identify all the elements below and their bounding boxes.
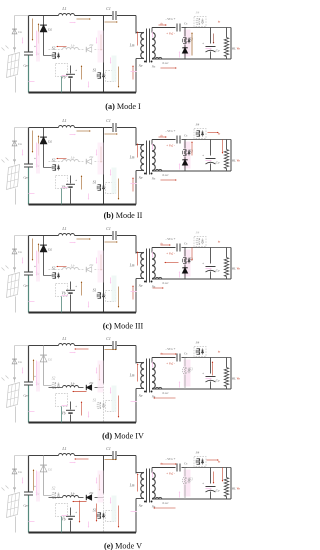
svg-text:+ Vs2 -: + Vs2 - bbox=[166, 252, 175, 256]
svg-text:RL: RL bbox=[231, 47, 236, 51]
svg-text:RL: RL bbox=[231, 267, 236, 271]
svg-text:Lm: Lm bbox=[129, 264, 135, 268]
svg-text:Vb: Vb bbox=[62, 292, 66, 296]
svg-text:Lb: Lb bbox=[70, 44, 75, 48]
svg-text:D1: D1 bbox=[88, 155, 94, 159]
svg-text:S1: S1 bbox=[93, 509, 97, 513]
svg-text:S4: S4 bbox=[196, 123, 200, 127]
svg-text:+: + bbox=[202, 262, 204, 266]
svg-text:Vo: Vo bbox=[237, 487, 241, 491]
svg-text:Cpv: Cpv bbox=[23, 176, 29, 180]
svg-text:S2: S2 bbox=[52, 377, 56, 381]
svg-text:+: + bbox=[75, 69, 77, 73]
svg-text:(c) Mode III: (c) Mode III bbox=[103, 322, 144, 331]
svg-text:iLsec: iLsec bbox=[162, 281, 169, 285]
svg-text:Np: Np bbox=[138, 64, 143, 68]
svg-text:S4: S4 bbox=[196, 11, 200, 15]
svg-text:RL: RL bbox=[231, 487, 236, 491]
svg-text:S3: S3 bbox=[189, 478, 193, 482]
svg-text:Lm: Lm bbox=[129, 374, 135, 378]
svg-text:S1: S1 bbox=[93, 69, 97, 73]
svg-text:Vb: Vb bbox=[62, 76, 66, 80]
svg-text:Co: Co bbox=[216, 269, 220, 273]
svg-text:+ Vs2 -: + Vs2 - bbox=[166, 362, 175, 366]
svg-text:- VCs +: - VCs + bbox=[165, 457, 175, 461]
svg-text:D2: D2 bbox=[47, 358, 53, 362]
svg-text:Np: Np bbox=[138, 284, 143, 288]
svg-text:- VCs +: - VCs + bbox=[165, 17, 175, 21]
svg-text:L1: L1 bbox=[61, 118, 66, 123]
svg-text:+: + bbox=[75, 511, 77, 515]
svg-text:RL: RL bbox=[231, 159, 236, 163]
svg-text:Vo: Vo bbox=[237, 377, 241, 381]
svg-text:Np: Np bbox=[138, 176, 143, 180]
svg-text:Np: Np bbox=[138, 504, 143, 508]
svg-text:+ Vs2 -: + Vs2 - bbox=[166, 144, 175, 148]
svg-text:Lb: Lb bbox=[70, 156, 75, 160]
svg-text:Da: Da bbox=[17, 142, 22, 146]
svg-text:Co: Co bbox=[216, 489, 220, 493]
svg-text:Cpv: Cpv bbox=[23, 394, 29, 398]
svg-text:+ Vs2 -: + Vs2 - bbox=[166, 32, 175, 36]
svg-text:(b) Mode II: (b) Mode II bbox=[104, 211, 143, 220]
svg-text:S3: S3 bbox=[189, 150, 193, 154]
svg-text:Cpv: Cpv bbox=[23, 64, 29, 68]
svg-text:L1: L1 bbox=[61, 446, 66, 451]
svg-text:D2: D2 bbox=[47, 468, 53, 472]
svg-text:+: + bbox=[202, 372, 204, 376]
svg-text:Lb: Lb bbox=[70, 264, 75, 268]
svg-text:- VCs +: - VCs + bbox=[165, 129, 175, 133]
svg-text:S4: S4 bbox=[196, 451, 200, 455]
svg-text:Co: Co bbox=[216, 379, 220, 383]
svg-text:iLsec: iLsec bbox=[162, 173, 169, 177]
svg-text:C1: C1 bbox=[106, 447, 111, 451]
svg-text:- VCs +: - VCs + bbox=[165, 237, 175, 241]
svg-text:iLsec: iLsec bbox=[162, 61, 169, 65]
svg-text:S3: S3 bbox=[189, 368, 193, 372]
svg-text:Lm: Lm bbox=[129, 44, 135, 48]
svg-text:S2: S2 bbox=[52, 47, 56, 51]
svg-text:+: + bbox=[202, 154, 204, 158]
svg-text:D1: D1 bbox=[88, 491, 94, 495]
svg-text:Lb: Lb bbox=[70, 492, 75, 496]
svg-text:D1: D1 bbox=[88, 43, 94, 47]
svg-text:D2: D2 bbox=[47, 28, 53, 32]
svg-text:- VCs +: - VCs + bbox=[165, 347, 175, 351]
svg-text:+: + bbox=[75, 285, 77, 289]
svg-text:(a) Mode I: (a) Mode I bbox=[105, 102, 141, 111]
svg-text:+: + bbox=[34, 157, 36, 161]
svg-text:S1: S1 bbox=[93, 399, 97, 403]
svg-text:+: + bbox=[202, 42, 204, 46]
svg-text:Np: Np bbox=[138, 394, 143, 398]
svg-text:Lm: Lm bbox=[129, 156, 135, 160]
svg-text:+: + bbox=[202, 482, 204, 486]
svg-text:Ns: Ns bbox=[151, 177, 156, 181]
svg-text:Co: Co bbox=[216, 49, 220, 53]
svg-text:C1: C1 bbox=[106, 227, 111, 231]
svg-text:Da: Da bbox=[17, 360, 22, 364]
svg-text:+ Vs2 -: + Vs2 - bbox=[166, 472, 175, 476]
svg-text:D1: D1 bbox=[88, 263, 94, 267]
svg-text:Vb: Vb bbox=[62, 412, 66, 416]
svg-text:iLsec: iLsec bbox=[162, 391, 169, 395]
svg-text:Cpv: Cpv bbox=[23, 284, 29, 288]
svg-text:+: + bbox=[75, 179, 77, 183]
svg-text:Co: Co bbox=[216, 161, 220, 165]
svg-text:C1: C1 bbox=[106, 337, 111, 341]
svg-text:Vo: Vo bbox=[237, 267, 241, 271]
svg-text:Vb: Vb bbox=[62, 518, 66, 522]
svg-text:+: + bbox=[34, 485, 36, 489]
svg-text:Cpv: Cpv bbox=[23, 504, 29, 508]
svg-text:D1: D1 bbox=[88, 381, 94, 385]
svg-text:Da: Da bbox=[17, 250, 22, 254]
svg-text:D2: D2 bbox=[47, 140, 53, 144]
svg-text:+: + bbox=[75, 405, 77, 409]
svg-text:+: + bbox=[34, 375, 36, 379]
svg-text:Vo: Vo bbox=[237, 159, 241, 163]
svg-text:C1: C1 bbox=[106, 7, 111, 11]
svg-text:D2: D2 bbox=[47, 248, 53, 252]
svg-text:L1: L1 bbox=[61, 6, 66, 11]
svg-text:Lm: Lm bbox=[129, 484, 135, 488]
svg-text:S4: S4 bbox=[196, 231, 200, 235]
svg-text:(d) Mode IV: (d) Mode IV bbox=[102, 432, 144, 441]
svg-text:Da: Da bbox=[17, 470, 22, 474]
svg-text:L1: L1 bbox=[61, 336, 66, 341]
svg-text:C1: C1 bbox=[106, 119, 111, 123]
svg-text:S1: S1 bbox=[93, 289, 97, 293]
svg-text:Vo: Vo bbox=[237, 47, 241, 51]
svg-text:Lb: Lb bbox=[70, 382, 75, 386]
svg-text:+: + bbox=[34, 265, 36, 269]
svg-text:S2: S2 bbox=[52, 487, 56, 491]
svg-text:RL: RL bbox=[231, 377, 236, 381]
svg-text:L1: L1 bbox=[61, 226, 66, 231]
svg-text:Da: Da bbox=[17, 30, 22, 34]
svg-text:S4: S4 bbox=[196, 341, 200, 345]
svg-text:S3: S3 bbox=[189, 38, 193, 42]
svg-text:Ns: Ns bbox=[151, 65, 156, 69]
svg-text:iLsec: iLsec bbox=[162, 501, 169, 505]
svg-text:+: + bbox=[34, 45, 36, 49]
svg-text:S1: S1 bbox=[93, 181, 97, 185]
svg-text:(e) Mode V: (e) Mode V bbox=[104, 542, 142, 550]
